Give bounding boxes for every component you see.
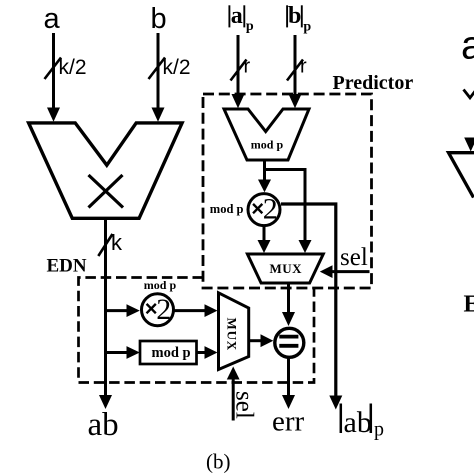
node |ab|p label [341, 404, 384, 441]
svg-text:a: a [44, 3, 61, 35]
node err label [272, 406, 305, 438]
wire U2 output junction [265, 160, 312, 253]
svg-text:Predictor: Predictor [333, 72, 414, 94]
svg-text:r: r [244, 56, 251, 78]
svg-text:(b): (b) [206, 450, 231, 474]
wire branch to mod p (EDN) [106, 346, 140, 359]
partial diagram right: label E of EDN [464, 292, 474, 318]
svg-text:MUX: MUX [270, 261, 303, 276]
comparator circle (equality check) [275, 328, 304, 357]
EDN dashed box [79, 278, 315, 383]
svg-text:EDN: EDN [47, 256, 87, 277]
label k/2 (a) [59, 56, 87, 79]
partial diagram right: wire notch [464, 88, 474, 98]
svg-text:p: p [246, 19, 254, 34]
svg-text:sel: sel [340, 244, 368, 271]
svg-text:b: b [151, 3, 167, 35]
svg-text:ab: ab [344, 406, 372, 439]
svg-text:r: r [300, 56, 307, 78]
svg-text:sel: sel [231, 391, 258, 419]
wire sel into MUX (Predictor) [320, 265, 370, 278]
label r (a) [244, 56, 251, 78]
node |a|p label [229, 3, 254, 34]
wire |b|p input [289, 35, 302, 108]
bus slash r on wire |a|p [231, 60, 247, 81]
wire mod p to MUX (EDN) [197, 346, 218, 359]
svg-text:E: E [464, 292, 474, 318]
svg-text:mod p: mod p [144, 278, 177, 292]
node ab label [88, 407, 119, 443]
wire x2 to MUX (EDN) [175, 304, 218, 317]
svg-text:b: b [288, 3, 301, 29]
svg-text:p: p [303, 20, 311, 35]
wire b input [152, 33, 165, 122]
label mod p left of x2 circle (Predictor) [210, 202, 244, 216]
multiplier U1 (k/2 x k/2) [29, 123, 183, 218]
svg-text:MUX: MUX [224, 318, 239, 351]
svg-text:a: a [231, 3, 243, 29]
svg-text:mod p: mod p [210, 202, 244, 216]
label Predictor [333, 72, 414, 94]
svg-text:err: err [272, 406, 305, 438]
wire branch to x2 (EDN) [106, 304, 140, 317]
node b label [151, 3, 167, 35]
label r (b) [300, 56, 307, 78]
partial diagram right: multiplier corner [449, 153, 474, 198]
svg-text:p: p [374, 419, 384, 441]
MUX (Predictor) [247, 254, 323, 283]
wire MUX out to comparator (EDN) [249, 334, 274, 347]
svg-text:mod p: mod p [152, 345, 191, 361]
svg-text:k/2: k/2 [59, 56, 87, 79]
bus slash k on wire ab [98, 234, 112, 256]
label k/2 (b) [163, 56, 191, 79]
wire ab output of U1 [99, 218, 112, 409]
partial diagram right: input arrowhead [464, 138, 474, 152]
wire err output [282, 358, 295, 410]
wire |ab|p branch from x2 circle [281, 204, 342, 410]
label k [111, 230, 123, 255]
svg-text:2: 2 [156, 293, 171, 326]
wire sel up into MUX (EDN) [227, 367, 240, 421]
MUX (EDN) [219, 293, 249, 370]
svg-text:ab: ab [88, 407, 119, 443]
bus slash r on wire |b|p [287, 60, 303, 81]
partial diagram right: node a label [461, 24, 474, 68]
label sel (Predictor) [340, 244, 368, 271]
multiplier x2 circle (EDN) [142, 293, 174, 326]
node |b|p label [287, 3, 311, 34]
caption (b) [206, 450, 231, 474]
wire MUX out to comparator (Predictor) [282, 283, 295, 326]
svg-text:2: 2 [263, 193, 278, 226]
node a label [44, 3, 61, 35]
svg-text:k/2: k/2 [163, 56, 191, 79]
modular multiplier U2 (mod p) [224, 109, 309, 160]
label sel (EDN, rotated) [231, 391, 258, 419]
wire x2 to MUX (Predictor) [258, 226, 271, 253]
Predictor dashed box [203, 94, 372, 288]
bus slash k/2 on wire a [45, 58, 62, 80]
svg-text:mod p: mod p [251, 137, 284, 151]
mod p block (EDN) [140, 341, 197, 364]
label EDN [47, 256, 87, 277]
wire a input [47, 33, 60, 122]
wire |a|p input [232, 35, 245, 108]
svg-text:k: k [111, 230, 123, 255]
multiplier x2 circle (Predictor) [248, 193, 280, 226]
bus slash k/2 on wire b [149, 58, 166, 80]
wire into x2 circle (Predictor) [258, 170, 271, 193]
label mod p above x2 circle (EDN) [144, 278, 177, 292]
svg-text:a: a [461, 24, 474, 68]
